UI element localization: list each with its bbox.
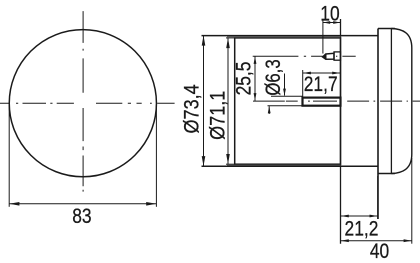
- body bottom band filler: [227, 164, 341, 166]
- terminal blade tip fill: [323, 54, 327, 59]
- 25.5 arrow top: [254, 56, 257, 64]
- dia6.3 lower arrow stem: [268, 106, 270, 114]
- 25.5 bottom extension (center axis solid): [253, 100, 285, 102]
- lens dome profile: [391, 29, 411, 174]
- dia71.1 arrow top: [226, 38, 230, 48]
- front ring top edge: [202, 35, 379, 37]
- terminal base box: [334, 52, 341, 60]
- socket slot section: [303, 98, 341, 106]
- dia71.1 arrow bottom: [226, 154, 230, 164]
- 21.7 dimension line: [303, 72, 341, 74]
- 83 arrow right: [146, 202, 156, 206]
- 10 dim extension left: [322, 19, 324, 54]
- 83 dim extension line left: [8, 105, 10, 207]
- svg-text:Ø6,3: Ø6,3: [262, 59, 285, 95]
- 21.2 dimension line: [341, 215, 378, 217]
- 10 arrow left: [323, 21, 330, 24]
- 21.7 arrow right: [332, 72, 340, 75]
- 83 dim extension line right: [155, 105, 157, 207]
- dia6.3 arrow up: [268, 106, 271, 113]
- 21.2 right extension: [377, 176, 379, 219]
- 21.2 arrow left: [341, 215, 349, 218]
- dia6.3 upper arrow stem: [284, 74, 286, 96]
- svg-text:Ø71,1: Ø71,1: [206, 91, 230, 140]
- svg-text:21,7: 21,7: [304, 72, 338, 96]
- right view: back housing body rect: [235, 38, 341, 164]
- svg-text:21,2: 21,2: [345, 217, 379, 241]
- 10 dimension line: [323, 22, 341, 24]
- 25.5 dimension line: [254, 56, 256, 101]
- svg-text:Ø73,4: Ø73,4: [180, 84, 204, 133]
- 21.7 left extension: [302, 70, 304, 97]
- bulb neck bottom line: [268, 105, 303, 107]
- svg-text:25,5: 25,5: [232, 61, 256, 95]
- lens flange top edge: [378, 28, 395, 30]
- dimension texts: [72, 2, 389, 263]
- dia73.4 dimension line: [203, 35, 205, 166]
- 25.5 arrow bottom: [254, 93, 257, 101]
- main axis dash-dot centerline: [286, 100, 420, 102]
- front ring bottom edge: [202, 165, 379, 167]
- neck cap vertical: [302, 96, 304, 106]
- 40 dimension line: [341, 240, 412, 242]
- lens flange bottom edge: [378, 173, 395, 175]
- 40 right extension: [411, 158, 413, 244]
- bulb neck top line: [271, 95, 303, 97]
- 40 arrow right: [404, 239, 412, 242]
- svg-text:10: 10: [320, 2, 339, 26]
- body top band filler: [227, 36, 341, 38]
- 83 arrow left: [9, 202, 19, 206]
- dia73.4 arrow bottom: [202, 156, 206, 166]
- 21.7 arrow left: [303, 72, 311, 75]
- 21.2 arrow right: [370, 215, 378, 218]
- svg-text:83: 83: [72, 204, 91, 228]
- left view vertical centerline: [82, 11, 84, 192]
- 40 arrow left: [341, 239, 349, 242]
- 83 dimension line: [9, 203, 156, 205]
- terminal blade: [323, 53, 334, 59]
- svg-text:40: 40: [370, 239, 389, 263]
- dia71.1 top extension: [226, 37, 235, 39]
- lens parting line: [390, 29, 392, 174]
- blade axis solid extension: [253, 55, 299, 57]
- left view: lamp face circle: [9, 30, 156, 177]
- 10 arrow right: [333, 21, 340, 24]
- left view horizontal centerline: [0, 102, 175, 104]
- dia73.4 arrow top: [202, 35, 206, 45]
- dia6.3 arrow down: [283, 89, 286, 96]
- dia71.1 dimension line: [227, 38, 229, 164]
- blade axis dash-dot: [304, 55, 356, 57]
- seam vertical line: [340, 19, 342, 244]
- lens flange left edge: [377, 29, 379, 220]
- dia71.1 bottom extension: [226, 163, 235, 165]
